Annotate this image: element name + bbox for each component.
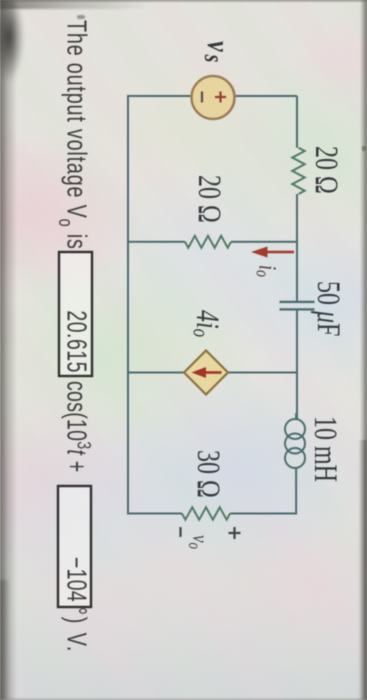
svg-text:vs: vs (198, 41, 236, 65)
svg-text:°) V.: °) V. (61, 607, 92, 653)
svg-text:10 mH: 10 mH (307, 416, 344, 482)
svg-text:50 μF: 50 μF (310, 281, 347, 336)
svg-text:20 Ω: 20 Ω (308, 146, 345, 194)
svg-text:20 Ω: 20 Ω (191, 175, 228, 223)
svg-text:vo: vo (184, 535, 212, 549)
svg-text:30 Ω: 30 Ω (190, 450, 227, 498)
svg-text:−104: −104 (61, 557, 91, 602)
svg-text:4io: 4io (188, 310, 226, 337)
svg-text:20.615: 20.615 (61, 310, 91, 373)
svg-text:io: io (252, 265, 281, 277)
svg-text:cos(103t +: cos(103t + (61, 381, 95, 473)
svg-text:The output voltage Vo is: The output voltage Vo is (54, 20, 91, 250)
